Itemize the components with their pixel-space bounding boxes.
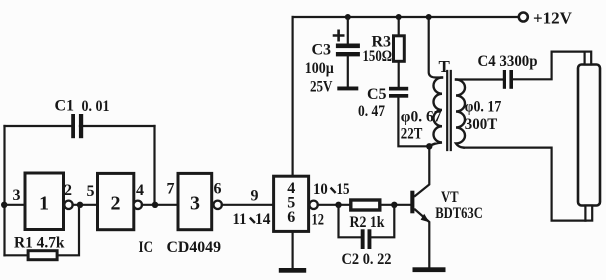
svg-text:10: 10 <box>313 181 328 198</box>
svg-text:R2 1k: R2 1k <box>350 214 385 231</box>
gate 2 output bubble <box>134 201 142 209</box>
wire secondary bottom to lamp bottom pin <box>464 148 586 221</box>
transistor collector lead <box>415 146 429 196</box>
lamp tube body <box>578 65 600 206</box>
capacitor C4 <box>503 70 513 89</box>
node rail/C3 junction dot <box>345 14 351 20</box>
svg-text:100µ: 100µ <box>305 60 334 77</box>
svg-text:φ0. 67: φ0. 67 <box>401 109 442 126</box>
wire pin3 input <box>5 204 26 206</box>
svg-text:22T: 22T <box>401 126 423 143</box>
svg-text:3: 3 <box>13 187 21 204</box>
lamp bottom pin <box>585 206 592 221</box>
ground (emitter) <box>413 267 446 272</box>
svg-text:3: 3 <box>190 192 200 214</box>
svg-text:C3: C3 <box>312 41 332 58</box>
node rail/transformer junction dot <box>426 14 432 20</box>
capacitor C3 polarity plus <box>334 31 343 40</box>
svg-text:6: 6 <box>287 209 295 226</box>
svg-text:14: 14 <box>255 211 271 228</box>
svg-text:11: 11 <box>233 211 247 228</box>
svg-text:IC: IC <box>139 239 154 256</box>
wire gate2 out to gate3 in <box>142 204 178 206</box>
lamp top pin <box>585 52 592 65</box>
capacitor C1 <box>71 114 83 138</box>
wire block out to R2 <box>318 204 351 206</box>
capacitor C2 <box>361 229 372 249</box>
svg-text:T: T <box>439 57 451 76</box>
svg-text:25V: 25V <box>310 79 333 96</box>
+12V supply rail <box>293 16 519 18</box>
wire C5 to collector node <box>398 98 429 147</box>
transistor VT base bar <box>410 191 414 214</box>
node base junction dot <box>391 202 397 208</box>
svg-text:C4 3300p: C4 3300p <box>478 53 538 70</box>
+12V terminal circle <box>519 13 528 22</box>
wire C2 branch right <box>371 205 394 238</box>
wire C4 to lamp top pin <box>513 52 585 80</box>
svg-text:150Ω: 150Ω <box>363 48 393 65</box>
wire C3 to ground <box>347 56 349 86</box>
svg-text:6: 6 <box>214 181 222 198</box>
svg-text:VT: VT <box>441 189 459 206</box>
wire R1 right and up to pin2/5 node <box>57 205 79 256</box>
ground (C3) <box>337 87 358 91</box>
node rail/R3 junction dot <box>396 14 402 20</box>
svg-text:φ0. 17: φ0. 17 <box>465 99 502 116</box>
svg-text:300T: 300T <box>465 116 498 133</box>
svg-text:4: 4 <box>136 182 144 199</box>
wire secondary top to C4 <box>456 78 503 80</box>
node pin3 junction dot <box>1 202 7 208</box>
svg-text:7: 7 <box>167 181 175 198</box>
svg-text:C2 0. 22: C2 0. 22 <box>342 251 392 268</box>
inverter gate 1 <box>25 173 64 230</box>
inverter gate 2 <box>98 173 134 229</box>
wire block top to +12V rail <box>292 17 294 176</box>
svg-text:C1: C1 <box>55 98 75 115</box>
svg-text:R1 4.7k: R1 4.7k <box>14 235 65 252</box>
transistor emitter lead <box>415 210 429 268</box>
svg-text:0. 47: 0. 47 <box>358 103 385 120</box>
capacitor C5 <box>389 87 408 98</box>
block output bubble <box>309 201 317 209</box>
svg-text:15: 15 <box>337 181 350 198</box>
svg-text:5: 5 <box>87 183 95 200</box>
svg-text:C5: C5 <box>367 86 387 103</box>
node collector junction dot <box>426 143 432 149</box>
inverter block U1 pins 4 5 6 <box>274 176 309 231</box>
svg-text:+12V: +12V <box>533 8 573 27</box>
resistor R2 <box>351 200 380 210</box>
wire C1 right rail vertical down to pin4/7 node <box>153 126 155 205</box>
node R2 left junction dot <box>335 202 341 208</box>
inverter gate 3 <box>178 173 212 229</box>
wire rail to C3 <box>347 17 349 44</box>
svg-text:1: 1 <box>39 192 49 214</box>
emitter arrowhead <box>421 214 430 223</box>
wire R1 left <box>5 254 29 256</box>
resistor R1 <box>28 251 57 260</box>
transformer T primary winding <box>429 78 442 147</box>
svg-text:BDT63C: BDT63C <box>435 205 483 222</box>
node pin4/7 junction dot <box>152 202 158 208</box>
wire C1 top loop horizontal <box>5 125 155 127</box>
gate 1 output bubble <box>64 201 72 209</box>
ground (block) <box>279 268 306 273</box>
wire C2 branch left <box>339 205 361 238</box>
wire R3 to C5 <box>398 61 400 87</box>
wire R2 right to base node <box>380 204 411 206</box>
gate 3 output bubble <box>214 201 222 209</box>
wire rail to R3 <box>398 17 400 36</box>
svg-text:CD4049: CD4049 <box>167 239 222 256</box>
capacitor C3 <box>336 44 360 57</box>
svg-text:2: 2 <box>64 182 72 199</box>
node pin2/5 junction dot <box>77 202 83 208</box>
transformer T secondary winding <box>456 80 465 148</box>
wire rail to primary top <box>429 17 442 78</box>
wire gate3 out to block 456 <box>222 204 274 206</box>
svg-text:12: 12 <box>312 211 325 228</box>
transformer core <box>447 71 451 150</box>
svg-text:2: 2 <box>111 192 121 214</box>
wire gate1 out to gate2 in <box>73 204 98 206</box>
resistor R3 <box>394 36 405 62</box>
svg-text:0. 01: 0. 01 <box>82 98 110 115</box>
wire block bottom to ground <box>292 231 294 268</box>
svg-text:9: 9 <box>251 188 259 205</box>
wire left rail vertical (C1 left to R1 bottom) <box>3 126 5 255</box>
